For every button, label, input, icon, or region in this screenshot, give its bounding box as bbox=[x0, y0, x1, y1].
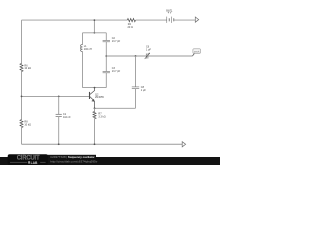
capacitor C2 bbox=[103, 40, 110, 41]
BAT1 label bbox=[166, 9, 173, 14]
R7 label bbox=[98, 113, 105, 119]
inductor L1 bbox=[81, 45, 83, 52]
node feedback junction bbox=[135, 55, 137, 57]
capacitor C8 bbox=[132, 87, 139, 89]
capacitor C3 bbox=[103, 71, 110, 72]
svg-text:100 nH: 100 nH bbox=[84, 48, 92, 51]
terminal GND (bottom) bbox=[182, 142, 185, 147]
capacitor C6 (variable) bbox=[146, 54, 148, 59]
R8 label bbox=[24, 121, 31, 127]
svg-text:13.7 pF: 13.7 pF bbox=[112, 40, 121, 43]
svg-text:4 V: 4 V bbox=[168, 12, 172, 15]
svg-text:LAB: LAB bbox=[31, 161, 38, 165]
svg-text:1 μF: 1 μF bbox=[141, 89, 147, 92]
wire C1 branch upper bbox=[58, 96, 60, 114]
wire base rail bbox=[22, 95, 90, 97]
capacitor C1 bbox=[56, 114, 62, 116]
svg-text:http://circuitlab.com/c6374qhq: http://circuitlab.com/c6374qhq595v bbox=[50, 160, 98, 164]
node C1 bottom junction bbox=[58, 143, 60, 145]
svg-text:10 kΩ: 10 kΩ bbox=[24, 124, 31, 127]
L1 label bbox=[84, 45, 92, 51]
wire emitter horizontal bbox=[95, 107, 136, 109]
wire left rail middle bbox=[21, 72, 23, 120]
node flag pointer bbox=[193, 54, 195, 56]
C1 label bbox=[63, 113, 71, 119]
footer text bbox=[50, 155, 98, 164]
wire output rail bbox=[106, 55, 146, 57]
C8 label bbox=[141, 86, 147, 92]
wire tank right middle bbox=[105, 42, 107, 72]
svg-text:2N3055: 2N3055 bbox=[95, 96, 104, 99]
node base-left junction bbox=[21, 96, 23, 98]
node name flag "out" bbox=[193, 49, 201, 54]
Q2 label bbox=[95, 93, 104, 99]
footer text plate bbox=[47, 155, 97, 159]
svg-text:10 kΩ: 10 kΩ bbox=[24, 67, 31, 70]
node tank tap junction bbox=[105, 55, 107, 57]
terminal VCC (top right) bbox=[195, 17, 198, 22]
battery BAT1 bbox=[167, 17, 174, 23]
svg-text:13.7 pF: 13.7 pF bbox=[112, 70, 121, 73]
resistor R8 bbox=[20, 120, 23, 128]
svg-text:out: out bbox=[194, 49, 200, 53]
wire top rail left segment bbox=[22, 19, 128, 21]
C3 label bbox=[112, 67, 121, 73]
svg-text:20 Ω: 20 Ω bbox=[128, 26, 133, 29]
wire output rail right bbox=[148, 55, 193, 57]
wire tank right bottom bbox=[105, 73, 107, 88]
R6 label bbox=[24, 64, 31, 70]
C2 label bbox=[112, 37, 121, 43]
C6 label bbox=[146, 46, 151, 52]
R4 label bbox=[128, 23, 133, 29]
node collector junction bbox=[94, 87, 96, 89]
wire feedback vertical lower bbox=[135, 89, 137, 109]
wire left rail upper bbox=[21, 20, 23, 63]
wire C1 branch lower bbox=[58, 117, 60, 145]
resistor R7 bbox=[94, 108, 96, 111]
footer black bar bbox=[0, 157, 220, 165]
wire tank bottom edge bbox=[83, 87, 107, 89]
C6 arrow bbox=[145, 53, 150, 59]
wire top rail right segment bbox=[174, 19, 196, 21]
node C1 top junction bbox=[58, 96, 60, 98]
svg-text:C2937TX28 | frequency oscilato: C2937TX28 | frequency oscilator bbox=[50, 155, 95, 159]
node emitter junction bbox=[94, 107, 96, 109]
wire stub top rail to tank bbox=[93, 20, 95, 33]
wire tank left lower bbox=[82, 52, 84, 88]
wire left rail lower bbox=[21, 128, 23, 145]
wire R7 to ground rail bbox=[94, 119, 96, 145]
node tank-top junction bbox=[94, 32, 96, 34]
node stub-rail junction bbox=[94, 19, 96, 21]
wire feedback vertical upper bbox=[135, 56, 137, 87]
node R7 ground junction bbox=[94, 143, 96, 145]
svg-text:1 pF: 1 pF bbox=[146, 49, 151, 52]
resistor R4 bbox=[127, 19, 135, 22]
resistor R6 bbox=[20, 64, 23, 72]
wire tank top edge bbox=[83, 32, 107, 34]
CircuitLab logo bbox=[8, 154, 48, 165]
transistor Q2 bbox=[90, 88, 95, 109]
wire tank left upper bbox=[82, 33, 84, 45]
wire bottom rail bbox=[22, 143, 183, 145]
svg-text:3.3 kΩ: 3.3 kΩ bbox=[98, 116, 105, 119]
svg-text:110 nF: 110 nF bbox=[63, 116, 71, 119]
wire top rail middle segment bbox=[136, 19, 167, 21]
wire tank right top bbox=[105, 33, 107, 41]
